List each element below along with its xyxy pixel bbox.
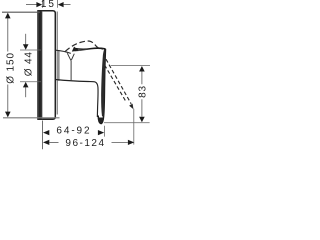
dim 64-92 right arrow [98, 130, 104, 135]
grip tip dark fill [98, 118, 103, 124]
dim 150 bottom ext line [3, 117, 60, 119]
dim 44 bottom arrow [25, 87, 27, 97]
dim 83 top arrow [139, 66, 145, 72]
dim 150 line bottom [7, 85, 9, 113]
svg-text:83: 83 [138, 85, 149, 98]
hub V detail [67, 53, 74, 60]
dim 44 top arrow [25, 34, 27, 45]
dim 83 bottom ext line [104, 122, 150, 124]
sleeve top edge [55, 50, 70, 53]
dim 15 left arrow [26, 4, 37, 6]
svg-text:Ø 44: Ø 44 [24, 51, 35, 76]
lever top edge [74, 47, 106, 50]
wall plate escutcheon outline [38, 11, 55, 119]
dim 83 top ext line [111, 65, 150, 67]
dashed tip vertical ext line [133, 109, 135, 145]
sleeve ring line [58, 51, 60, 81]
dim 96-124 left arrow [43, 140, 49, 145]
svg-text:Ø 150: Ø 150 [6, 52, 17, 84]
swing arrowhead [129, 104, 133, 109]
dim 15 right arrow [64, 4, 71, 6]
body bottom edge and grip left edge [55, 80, 98, 118]
dim 150 top arrow [5, 13, 11, 19]
svg-text:96-124: 96-124 [65, 138, 105, 149]
plate left dark band [38, 11, 42, 119]
hub stem line [70, 60, 72, 80]
dim 15 right ext line [56, 0, 58, 8]
dim 150 line top [7, 18, 9, 52]
dim 150 top ext line [2, 11, 40, 13]
dashed swing line outer [106, 59, 131, 104]
dim 44 top ext line [20, 49, 41, 51]
svg-text:15: 15 [41, 0, 56, 10]
bottom dims shared left ext line [42, 121, 44, 150]
lever top inner line [75, 50, 87, 51]
dim 64-92 right ext line [104, 126, 106, 137]
dashed raised-handle top arc [65, 41, 102, 51]
dim 44 bottom ext line [20, 81, 41, 83]
plate front face line [56, 12, 58, 115]
dashed swing line inner [105, 65, 127, 102]
hub beak [72, 47, 78, 51]
dim 15 left ext line [42, 0, 44, 8]
dim 96-124 right arrow [128, 140, 134, 145]
svg-text:64-92: 64-92 [56, 126, 91, 137]
dim 64-92 left arrow [43, 130, 49, 135]
handle right edge outer and grip tip [98, 49, 105, 124]
dim 150 bottom arrow [5, 112, 11, 118]
dim 83 bottom arrow [139, 117, 145, 123]
handle right edge inner line [101, 49, 105, 117]
